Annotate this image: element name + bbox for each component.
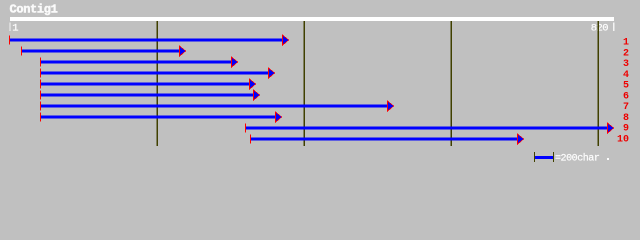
read arrow 8 <box>40 111 282 123</box>
read arrow 5 <box>40 78 256 90</box>
read arrow 6 <box>40 89 260 101</box>
svg-text:4: 4 <box>623 70 629 81</box>
svg-text:3: 3 <box>623 59 629 70</box>
ruler label |1 <box>9 23 10 32</box>
svg-text:=200char: =200char <box>555 153 600 165</box>
svg-text:Contig1: Contig1 <box>10 3 58 17</box>
legend period <box>607 158 609 160</box>
svg-text:820: 820 <box>591 23 608 35</box>
grid line 400 <box>304 21 305 146</box>
read arrow 10 <box>250 133 524 145</box>
legend bar <box>535 156 553 159</box>
read arrow 2 <box>21 45 186 57</box>
read arrow 1 <box>9 34 289 46</box>
grid line 200 <box>157 21 158 146</box>
grid line 800 <box>598 21 599 146</box>
svg-text:1: 1 <box>623 38 629 49</box>
svg-text:5: 5 <box>623 81 629 92</box>
ruler white band <box>10 17 614 21</box>
read arrow 4 <box>40 67 275 79</box>
read arrow 9 <box>245 122 614 134</box>
grid line 600 <box>451 21 452 146</box>
svg-text:6: 6 <box>623 91 629 102</box>
read arrow 7 <box>40 100 394 112</box>
svg-text:1: 1 <box>12 23 18 35</box>
svg-text:2: 2 <box>623 48 629 59</box>
svg-text:9: 9 <box>623 124 629 135</box>
svg-text:8: 8 <box>623 113 629 124</box>
legend bar right tick <box>553 152 554 162</box>
legend bar left tick <box>534 152 535 162</box>
svg-text:7: 7 <box>623 102 629 113</box>
svg-text:10: 10 <box>617 134 629 145</box>
read arrow 3 <box>40 56 238 68</box>
